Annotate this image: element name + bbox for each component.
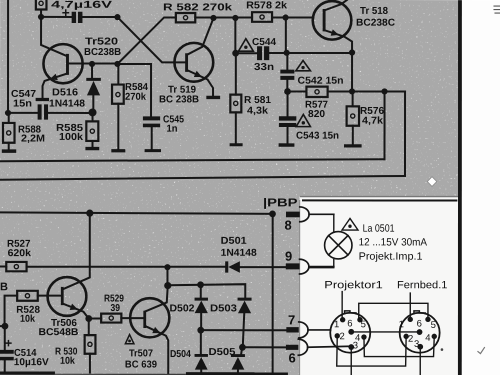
resistor R577 (306, 87, 405, 97)
transistor Tr519 (174, 18, 213, 96)
node dot J (286.6,52.8) (284, 50, 290, 56)
resistor R578 (252, 12, 313, 22)
wire conn1 center to conn2 center (351, 331, 417, 333)
transistor Tr506 (48, 213, 90, 318)
ground R584 (111, 149, 125, 152)
node dot E (92.5,112.5) (89, 108, 97, 116)
connector pin 7 (286, 322, 330, 338)
svg-text:2,2M: 2,2M (21, 134, 45, 145)
capacitor C544 (236, 46, 352, 60)
svg-text:3: 3 (353, 340, 358, 351)
svg-text:Tr507: Tr507 (129, 348, 153, 359)
grey schematic block right upper (300, 0, 462, 197)
resistor R585 (86, 112, 98, 146)
svg-text:1N4148: 1N4148 (221, 248, 257, 259)
svg-text:6: 6 (417, 318, 422, 329)
DIN connector Projektor1 (330, 311, 370, 353)
svg-text:3: 3 (414, 339, 419, 350)
node dot T (200.6,284.8) (197, 281, 204, 288)
resistor top-left (cropped at edge) (36, 0, 47, 17)
wire conn1 pin1 up (341, 292, 343, 320)
wire conn2 pin1 up (409, 293, 411, 319)
svg-text:Tr 518: Tr 518 (360, 6, 388, 17)
node dot K (352,52.5) (349, 49, 355, 55)
svg-text:1: 1 (399, 319, 404, 330)
svg-text:D502: D502 (169, 303, 194, 314)
node dot A (41,17) (38, 14, 44, 20)
node dot U (200.8,330.2) (197, 327, 204, 334)
wire vertical mid to bottom edge (272, 214, 274, 375)
svg-text:2: 2 (408, 334, 413, 345)
svg-text:Tr520: Tr520 (85, 37, 119, 48)
node dot V (242.5,347.3) (239, 344, 246, 351)
resistor R588 (3, 113, 15, 150)
ground C545 (145, 149, 161, 152)
transistor Tr518 (313, 0, 352, 53)
svg-text:4,7k: 4,7k (362, 116, 383, 127)
ground Tr519 emitter (206, 96, 220, 99)
svg-text:4: 4 (425, 333, 430, 344)
connector pin 9 (286, 259, 334, 274)
white box top border line (302, 199, 457, 201)
node dot D (8,113) (5, 110, 11, 116)
svg-text:Fernbed.1: Fernbed.1 (397, 279, 448, 291)
wire cross diagonal B-to-Tr519-base (117, 17, 185, 62)
diode D502 (195, 285, 208, 330)
resistor R530 (85, 319, 96, 373)
svg-text:BC238C: BC238C (356, 18, 395, 29)
wire conn1 pin3 down (350, 347, 352, 375)
bottom edge smudge thin (55, 374, 186, 375)
ground R576 (344, 144, 362, 147)
grey schematic block left (full height) (0, 0, 301, 375)
black page border right of schematic (458, 0, 462, 375)
warning triangle La0501 (342, 218, 358, 230)
wire pin7 row (201, 329, 287, 331)
scan mark triple dash top right (494, 6, 500, 13)
warning triangle C544 (238, 39, 253, 52)
wire left vertical rail (7, 0, 9, 113)
svg-text:D503: D503 (210, 303, 237, 314)
ground R581 (230, 143, 243, 146)
svg-text:1n: 1n (167, 124, 178, 135)
wire conn2 pin3 down (419, 347, 421, 375)
svg-text:Projektor1: Projektor1 (324, 279, 383, 291)
svg-text:33n: 33n (254, 62, 274, 73)
svg-text:D516: D516 (52, 87, 78, 98)
ground R588 (2, 149, 16, 152)
scan check mark right margin (478, 348, 485, 354)
svg-text:8: 8 (284, 218, 291, 233)
resistor R576 (347, 91, 359, 144)
ground C543 (279, 143, 295, 146)
wire conn1 pin4 to conn2 pin4 loop (364, 336, 434, 356)
svg-text:10k: 10k (20, 314, 35, 325)
wire conn1 pin5 to conn2 pin5 bridge (359, 303, 428, 319)
node dot R (167.5,267.2) (164, 264, 170, 270)
wire top rail left (41, 16, 71, 18)
svg-text:BC238B: BC238B (84, 47, 121, 58)
svg-text:BC548B: BC548B (38, 327, 78, 338)
svg-text:R 582 270k: R 582 270k (163, 2, 233, 13)
node dot S (167.8,285.6) (164, 282, 171, 289)
warning triangle C542 (296, 61, 311, 71)
capacitor C545 (143, 116, 160, 149)
resistor R527 (0, 262, 27, 271)
lamp La0501 (325, 232, 352, 259)
bus line 2 (0, 176, 405, 180)
svg-text:BC 639: BC 639 (125, 360, 157, 371)
wire node D to C547 (8, 112, 38, 114)
wire Tr518 emitter down (351, 53, 353, 92)
scan artifact diamond (427, 177, 437, 187)
svg-text:5: 5 (431, 320, 436, 331)
wire node R down (166, 267, 168, 285)
capacitor C548 4,7u16V (63, 10, 117, 23)
node dot G (235.3,18) (232, 15, 238, 21)
svg-text:Projekt.Imp.1: Projekt.Imp.1 (359, 251, 423, 263)
node dot X (88.8,318.6) (85, 315, 92, 322)
diode D504 (195, 330, 208, 374)
diode D505 (231, 347, 245, 373)
node dot M (352,91.4) (349, 88, 355, 94)
wire pin6 row (242, 346, 286, 348)
resistor R529 (89, 314, 144, 323)
resistor R584 (112, 64, 124, 149)
node dot I (235.6,53.2) (232, 50, 239, 57)
svg-text:39: 39 (111, 303, 121, 314)
svg-text:820: 820 (308, 109, 325, 120)
svg-text:2: 2 (339, 331, 344, 342)
svg-text:R578 2k: R578 2k (246, 0, 287, 11)
wire R527 to diode row (27, 266, 226, 268)
svg-text:620k: 620k (8, 248, 32, 259)
wire C544 branch vertical (234, 18, 236, 53)
wire corner down to bus2 (404, 92, 406, 176)
warning triangle C543 (296, 114, 310, 126)
svg-text:1: 1 (334, 319, 339, 330)
svg-text:100k: 100k (59, 132, 83, 143)
node dot P (89.8,213.2) (86, 210, 93, 217)
svg-text:D504: D504 (170, 349, 191, 360)
resistor R528 (5, 291, 61, 326)
svg-text:D501: D501 (221, 236, 247, 247)
svg-text:9: 9 (285, 249, 292, 264)
node dot W (5,326.2) (2, 323, 9, 330)
capacitor C542 (280, 53, 294, 92)
warning triangle Tr507 (125, 335, 134, 344)
transistor Tr520 (41, 17, 83, 98)
diode D516 (86, 64, 101, 110)
white box left faint edge (299, 200, 300, 375)
wire diode ladder top row (168, 284, 246, 298)
node dot F (213.4,18) (210, 15, 216, 21)
resistor R582 (176, 13, 252, 22)
svg-text:4,7µ16V: 4,7µ16V (51, 0, 113, 11)
wire Tr507 collector (145, 286, 168, 312)
wire pin8 to lamp (333, 214, 335, 232)
svg-text:5: 5 (361, 319, 366, 330)
node dot base Tr520 (92,64) (89, 61, 95, 67)
bus line 1 (0, 159, 385, 161)
diode D501 (225, 261, 286, 272)
wire node N down to bus1 (384, 91, 386, 159)
ground R585 (85, 147, 99, 150)
wire node C to C545 top (117, 64, 151, 116)
node dot L (287.5,91.5) (284, 88, 291, 95)
wire lamp to pin9 (309, 259, 334, 267)
capacitor C547 (38, 104, 90, 119)
svg-text:D505: D505 (208, 347, 235, 358)
DIN connector Fernbed.1 (400, 311, 440, 353)
svg-text:R 581: R 581 (244, 95, 271, 106)
svg-text:6: 6 (288, 350, 295, 365)
node dot N (384.5,91.4) (381, 88, 387, 94)
connector pin 8 (286, 207, 334, 222)
wire cross diagonal node117-to-R582 (117, 17, 175, 64)
capacitor C543 (279, 92, 296, 144)
svg-text:B: B (0, 281, 8, 293)
wire conn1 pin2 to conn2 pin2 loop (337, 336, 406, 366)
svg-text:C542 15n: C542 15n (298, 76, 344, 87)
svg-text:15n: 15n (13, 99, 32, 110)
wire C542 branch vertical (285, 18, 287, 53)
connector pin 6 (286, 339, 351, 355)
node dot B (117.4,17) (114, 14, 120, 20)
svg-text:7: 7 (288, 312, 295, 327)
svg-text:10k: 10k (60, 356, 75, 367)
svg-text:C543 15n: C543 15n (296, 131, 339, 142)
svg-text:1N4148: 1N4148 (49, 99, 85, 110)
white box top edge smudge (300, 196, 458, 197)
white inset box (lamp + connectors) (300, 197, 458, 375)
node dot H (285.5,17.5) (282, 14, 288, 20)
wire stub left at node W (0, 325, 5, 327)
wire supply row (0, 212, 272, 213)
wire Tr520 base to node C (69, 63, 118, 65)
svg-text:|PBP: |PBP (263, 197, 298, 209)
node dot Q (272.5,213.9) (269, 211, 276, 218)
svg-text:BC 238B: BC 238B (159, 94, 199, 105)
bottom edge smudge left (0, 372, 55, 375)
svg-text:12 ...15V 30mA: 12 ...15V 30mA (359, 236, 428, 248)
capacitor C514 (0, 326, 14, 372)
ground Tr520 emitter (36, 98, 49, 101)
svg-text:4,3k: 4,3k (247, 106, 268, 117)
transistor Tr507 (130, 298, 169, 374)
diode D503 (238, 298, 252, 348)
resistor R581 (230, 53, 241, 143)
svg-text:10µ16V: 10µ16V (14, 357, 49, 368)
wire node L to R577 (288, 91, 307, 93)
svg-text:La 0501: La 0501 (363, 223, 395, 235)
node dot C (117.4,64) (114, 61, 120, 67)
svg-text:6: 6 (347, 318, 352, 329)
scan dirt dot (441, 348, 444, 351)
svg-text:270k: 270k (125, 92, 146, 103)
bottom edge smudge mid (186, 372, 288, 375)
